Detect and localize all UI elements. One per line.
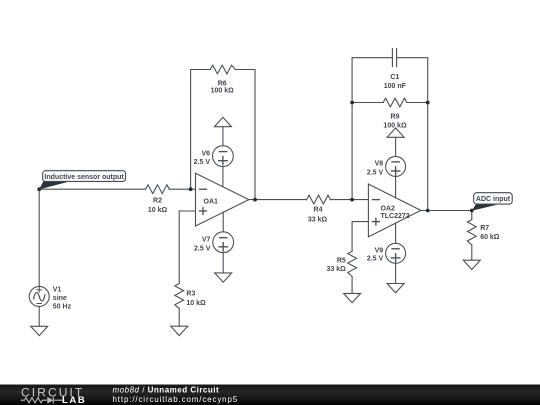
svg-text:V8: V8 — [375, 161, 384, 168]
wire OA2 bottom edge to V9 — [395, 223, 397, 243]
ground R5 — [344, 293, 361, 302]
ground V1 — [31, 326, 48, 335]
op-amp OA2 — [368, 184, 420, 237]
wire V7 to ground — [222, 253, 224, 273]
wire V8 arrow stem — [395, 137, 397, 156]
wire V6 arrow stem — [222, 127, 224, 146]
junction dot OA1 inverting input — [189, 187, 193, 191]
resistor R7 — [467, 220, 476, 245]
wire V9 to ground — [395, 263, 397, 283]
wire C1 right plate to right — [397, 57, 428, 59]
svg-text:OA1: OA1 — [204, 199, 219, 206]
svg-text:100 nF: 100 nF — [384, 83, 407, 90]
junction dot OA2 output — [426, 209, 430, 213]
source V9 — [386, 243, 406, 263]
supply arrow above V6 — [214, 117, 231, 126]
resistor R6 — [210, 65, 235, 74]
svg-text:R3: R3 — [186, 290, 195, 297]
capacitor C1 — [392, 48, 396, 67]
junction dot OA2 inverting input — [350, 198, 354, 202]
ground R7 — [463, 260, 480, 269]
svg-text:R6: R6 — [218, 80, 227, 87]
wire R2 right to OA1 inverting input — [169, 188, 195, 190]
wire OA2 feedback right vertical — [427, 58, 429, 211]
wire top left to R6 — [191, 69, 211, 71]
svg-text:60 kΩ: 60 kΩ — [480, 234, 500, 241]
svg-text:2.5 V: 2.5 V — [194, 159, 211, 166]
svg-text:LAB: LAB — [62, 395, 86, 405]
svg-text:V9: V9 — [375, 248, 384, 255]
wire OA2 feedback left vertical — [351, 58, 353, 200]
ground V7 — [215, 273, 232, 282]
junction dot ADC node — [470, 209, 474, 213]
wire OA1 non-inverting input — [179, 210, 195, 212]
svg-text:33 kΩ: 33 kΩ — [308, 216, 328, 223]
svg-text:V1: V1 — [53, 286, 62, 293]
svg-text:V6: V6 — [201, 150, 210, 157]
svg-text:http://circuitlab.com/cecynp5: http://circuitlab.com/cecynp5 — [113, 395, 239, 404]
source V8 — [386, 156, 406, 176]
logo resistor zigzag — [21, 397, 65, 404]
wire node A to R2 left — [39, 188, 145, 190]
op-amp OA1 — [196, 173, 249, 226]
wire R9 left lead — [352, 102, 383, 104]
source V6 — [213, 146, 234, 167]
junction dot OA1 output — [253, 198, 257, 202]
wire ADC node to R7 — [471, 211, 473, 220]
svg-text:V7: V7 — [202, 237, 211, 244]
logo diode — [52, 397, 54, 404]
wire OA1 bottom edge to V7 — [222, 212, 224, 232]
wire feedback right vertical OA1 — [254, 70, 256, 200]
svg-text:R4: R4 — [314, 207, 323, 214]
ground V9 — [387, 284, 404, 293]
source V1 sine — [29, 286, 49, 306]
svg-text:sine: sine — [53, 295, 67, 302]
node A junction dot — [37, 187, 41, 191]
svg-text:R5: R5 — [337, 257, 346, 264]
wire V6 to OA1 top edge — [222, 167, 224, 187]
resistor R4 — [307, 195, 331, 204]
junction dot R9 left — [350, 101, 354, 105]
svg-text:TLC2272: TLC2272 — [381, 213, 410, 220]
node flag ADC input — [472, 204, 498, 211]
svg-text:C1: C1 — [390, 74, 399, 81]
svg-text:Inductive sensor output: Inductive sensor output — [44, 174, 124, 181]
wire R5 top vertical — [351, 222, 353, 252]
wire V1 top to node A — [38, 189, 40, 286]
svg-text:50 Hz: 50 Hz — [53, 303, 72, 310]
svg-text:2.5 V: 2.5 V — [194, 245, 211, 252]
svg-text:10 kΩ: 10 kΩ — [186, 300, 206, 307]
wire V1 bottom to ground — [38, 306, 40, 326]
svg-text:R9: R9 — [391, 113, 400, 120]
svg-text:R7: R7 — [480, 225, 489, 232]
wire OA2 non-inverting input — [352, 221, 368, 223]
resistor R9 — [383, 98, 407, 107]
svg-text:2.5 V: 2.5 V — [367, 255, 384, 262]
wire feedback left vertical OA1 — [190, 70, 192, 190]
svg-text:ADC input: ADC input — [476, 196, 511, 203]
wire top to C1 left plate — [352, 57, 392, 59]
node flag Inductive sensor output — [39, 181, 68, 189]
svg-text:10 kΩ: 10 kΩ — [148, 207, 168, 214]
wire OA1 output to OA2 inverting input with R4 gap — [249, 199, 307, 201]
resistor R5 — [348, 251, 357, 276]
wire R9 right lead — [407, 102, 428, 104]
svg-text:33 kΩ: 33 kΩ — [327, 266, 347, 273]
wire R6 to top right — [235, 69, 255, 71]
svg-text:2.5 V: 2.5 V — [367, 169, 384, 176]
svg-text:100 kΩ: 100 kΩ — [383, 122, 407, 129]
ground R3 — [171, 326, 188, 335]
source V7 — [213, 232, 234, 253]
supply arrow above V8 — [387, 128, 404, 137]
junction dot R9 right — [426, 101, 430, 105]
svg-text:100 kΩ: 100 kΩ — [211, 87, 235, 94]
wire R3 top vertical — [178, 211, 180, 284]
svg-text:R2: R2 — [153, 198, 162, 205]
wire R5 bottom to ground — [351, 277, 353, 294]
wire V8 to OA2 top edge — [395, 176, 397, 197]
wire R3 bottom to ground — [178, 309, 180, 327]
wire R7 bottom to ground — [471, 245, 473, 260]
resistor R2 — [146, 185, 170, 194]
resistor R3 — [175, 284, 184, 309]
footer bar — [0, 385, 540, 405]
wire OA2 output to ADC node — [421, 210, 472, 212]
svg-text:mob8d / Unnamed Circuit: mob8d / Unnamed Circuit — [113, 385, 220, 394]
svg-text:OA2: OA2 — [381, 205, 396, 212]
